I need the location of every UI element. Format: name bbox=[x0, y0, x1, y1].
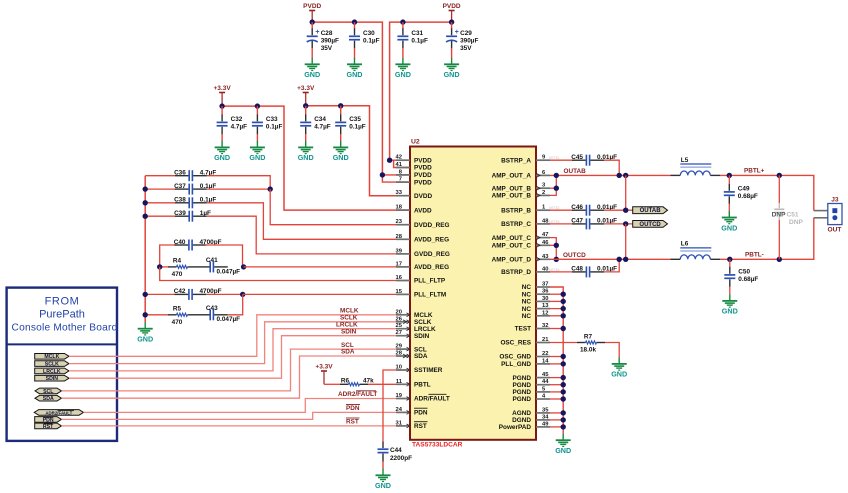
node outab flag junction bbox=[623, 208, 628, 213]
node C50 junction bbox=[727, 257, 732, 262]
wire PBTL- run bbox=[720, 218, 814, 259]
svg-text:32: 32 bbox=[542, 323, 548, 329]
capacitor C32 bbox=[217, 106, 248, 134]
capacitor C51 (DNP) bbox=[772, 175, 804, 259]
svg-text:BSTRP_D: BSTRP_D bbox=[501, 269, 531, 276]
svg-text:28: 28 bbox=[396, 351, 403, 357]
svg-text:39: 39 bbox=[396, 248, 403, 254]
wire C33-gnd bbox=[256, 134, 258, 141]
svg-text:C44: C44 bbox=[390, 447, 402, 454]
svg-text:C47: C47 bbox=[571, 218, 583, 225]
node C42 right junction bbox=[240, 292, 245, 297]
svg-text:PowerPAD: PowerPAD bbox=[499, 424, 532, 431]
net flag OUTCD bbox=[633, 221, 668, 228]
net flag SCLK bbox=[35, 361, 69, 368]
svg-text:C34: C34 bbox=[314, 116, 326, 123]
svg-text:10: 10 bbox=[396, 365, 402, 371]
ground C30 bbox=[347, 58, 363, 79]
svg-text:PBTL+: PBTL+ bbox=[744, 168, 765, 175]
svg-text:0.1µF: 0.1µF bbox=[363, 37, 380, 44]
pin 41 PVDD bbox=[396, 162, 433, 172]
capacitor C40 bbox=[160, 239, 243, 267]
ground C28 bbox=[304, 58, 320, 79]
svg-text:GND: GND bbox=[395, 70, 411, 79]
svg-text:+: + bbox=[455, 29, 459, 36]
svg-text:SDA: SDA bbox=[414, 353, 428, 360]
svg-text:30: 30 bbox=[542, 296, 548, 302]
wire +3.3V rail 2 to DVDD bbox=[306, 106, 410, 196]
net flag PDN bbox=[35, 417, 62, 424]
wire C31-gnd bbox=[402, 48, 404, 58]
svg-text:DNP: DNP bbox=[789, 219, 804, 226]
svg-text:DVDD_REG: DVDD_REG bbox=[414, 222, 450, 229]
net label LRCLK bbox=[336, 321, 358, 328]
svg-text:TEST: TEST bbox=[515, 326, 531, 333]
wire LRCLK bbox=[69, 329, 410, 371]
node pin46 junction bbox=[554, 243, 559, 248]
svg-text:OUTCD: OUTCD bbox=[563, 252, 586, 259]
pin 18 AVDD bbox=[396, 205, 432, 215]
pin 24 PDN bbox=[396, 407, 428, 417]
svg-text:C39: C39 bbox=[174, 210, 186, 217]
svg-text:17: 17 bbox=[396, 261, 402, 267]
wire C28-gnd bbox=[311, 48, 313, 58]
node 3.3V-C34 junction bbox=[303, 103, 308, 108]
part number TAS5733LDCAR bbox=[412, 442, 463, 449]
svg-text:0.68µF: 0.68µF bbox=[738, 193, 758, 200]
svg-text:OUT: OUT bbox=[828, 227, 842, 234]
pin 5 PGND bbox=[513, 386, 550, 396]
pin 36 NC bbox=[522, 289, 550, 299]
svg-text:PBTL: PBTL bbox=[414, 382, 431, 389]
svg-text:DGND: DGND bbox=[512, 417, 531, 424]
svg-text:C29: C29 bbox=[460, 30, 472, 37]
svg-text:390µF: 390µF bbox=[321, 37, 339, 44]
node 3.3V-C33 junction bbox=[255, 103, 260, 108]
svg-text:BSTRP_B: BSTRP_B bbox=[501, 207, 531, 214]
svg-text:NC: NC bbox=[522, 306, 532, 313]
svg-text:470: 470 bbox=[172, 319, 183, 326]
svg-text:OUTAB: OUTAB bbox=[564, 168, 587, 175]
wire RST bbox=[62, 425, 411, 427]
svg-text:PLL_GND: PLL_GND bbox=[501, 361, 531, 368]
capacitor C37 bbox=[145, 183, 270, 195]
pin 46 AMP_OUT_C bbox=[492, 240, 550, 250]
svg-text:12: 12 bbox=[542, 310, 548, 316]
svg-text:35: 35 bbox=[542, 407, 549, 413]
power PVDD (left) bbox=[303, 3, 321, 22]
svg-text:C49: C49 bbox=[738, 185, 750, 192]
node PVDD-C30 junction bbox=[352, 19, 357, 24]
pin 14 PLL_GND bbox=[501, 358, 550, 368]
svg-text:GND: GND bbox=[611, 370, 627, 379]
svg-text:+: + bbox=[315, 29, 319, 36]
net label SCLK bbox=[340, 315, 358, 322]
node pin6 junction bbox=[554, 173, 559, 178]
pin 28 AVDD_REG bbox=[396, 234, 450, 244]
wire PLL_FLTM pin15 bbox=[243, 293, 410, 295]
ground C29 bbox=[444, 58, 460, 79]
svg-text:24: 24 bbox=[396, 407, 403, 413]
wire PBTL+ run bbox=[720, 175, 814, 210]
svg-text:R7: R7 bbox=[584, 333, 593, 340]
pin 15 PLL_FLTM bbox=[396, 289, 447, 299]
svg-text:390µF: 390µF bbox=[460, 37, 478, 44]
svg-text:PVDD: PVDD bbox=[443, 3, 461, 10]
node C51 bottom junction bbox=[777, 257, 782, 262]
net label ADR2/FAULT bbox=[338, 391, 377, 398]
ground C35 bbox=[333, 141, 349, 162]
pin 43 AMP_OUT_D bbox=[492, 254, 550, 264]
capacitor C47 bbox=[550, 218, 633, 230]
svg-text:0.68µF: 0.68µF bbox=[738, 276, 758, 283]
svg-text:4.7µF: 4.7µF bbox=[314, 123, 331, 130]
ground right bus bbox=[555, 434, 571, 455]
node C48 outcd junction bbox=[617, 257, 622, 262]
svg-text:C42: C42 bbox=[174, 288, 186, 295]
svg-text:C46: C46 bbox=[571, 204, 583, 211]
pin 35 AGND bbox=[512, 407, 550, 417]
ground C33 bbox=[249, 141, 265, 162]
pin 1 BSTRP_B bbox=[501, 205, 560, 215]
wire amp_out_b group bbox=[550, 175, 556, 195]
svg-text:NC: NC bbox=[522, 291, 532, 298]
ground R7 bbox=[611, 357, 627, 378]
svg-text:PDN: PDN bbox=[414, 410, 428, 417]
svg-text:SCL: SCL bbox=[43, 389, 54, 395]
net label MCLK bbox=[340, 308, 359, 315]
pin 30 NC bbox=[522, 296, 550, 306]
node outcd flag junction bbox=[623, 221, 628, 226]
ground C31 bbox=[395, 58, 411, 79]
svg-text:44: 44 bbox=[542, 379, 549, 385]
svg-text:PVDD: PVDD bbox=[414, 172, 432, 179]
svg-text:C48: C48 bbox=[571, 266, 583, 273]
pin 13 NC bbox=[522, 303, 550, 313]
pin 44 PGND bbox=[513, 379, 550, 389]
svg-text:GND: GND bbox=[298, 153, 314, 162]
svg-text:SCLK: SCLK bbox=[45, 362, 59, 368]
wire SCLK bbox=[69, 322, 410, 364]
svg-text:PVDD: PVDD bbox=[414, 179, 432, 186]
svg-text:14: 14 bbox=[542, 358, 549, 364]
resistor R7 bbox=[550, 333, 619, 357]
svg-text:C28: C28 bbox=[321, 30, 333, 37]
node bus junctions bbox=[561, 292, 566, 430]
pin 26 SCLK bbox=[396, 316, 432, 326]
svg-text:BSTRP_C: BSTRP_C bbox=[501, 221, 531, 228]
svg-text:RST: RST bbox=[43, 424, 54, 430]
svg-text:29: 29 bbox=[396, 344, 403, 350]
svg-text:J3: J3 bbox=[831, 197, 839, 204]
node PVDD-C29 junction bbox=[449, 19, 454, 24]
svg-text:LRCLK: LRCLK bbox=[414, 326, 436, 333]
svg-text:C33: C33 bbox=[266, 116, 278, 123]
svg-text:4.7µF: 4.7µF bbox=[231, 123, 248, 130]
svg-text:GND: GND bbox=[721, 223, 737, 232]
svg-text:+3.3V: +3.3V bbox=[214, 85, 232, 92]
capacitor C49 bbox=[724, 175, 758, 204]
net flag SDA bbox=[35, 395, 62, 402]
svg-text:23: 23 bbox=[396, 219, 403, 225]
node PVDD-C31 junction bbox=[400, 19, 405, 24]
svg-text:45: 45 bbox=[542, 372, 549, 378]
svg-text:11: 11 bbox=[396, 379, 403, 385]
svg-text:SDA: SDA bbox=[43, 396, 54, 402]
pin 4 PGND bbox=[513, 394, 550, 404]
wire left bus bbox=[144, 176, 146, 323]
capacitor C45 bbox=[550, 154, 619, 175]
svg-text:MCLK: MCLK bbox=[340, 308, 359, 315]
svg-text:GND: GND bbox=[375, 481, 391, 490]
svg-text:15: 15 bbox=[396, 289, 403, 295]
svg-text:OSC_GND: OSC_GND bbox=[499, 354, 531, 361]
pin 22 OSC_GND bbox=[499, 351, 550, 361]
net label SDIN bbox=[341, 328, 357, 335]
svg-text:LRCLK: LRCLK bbox=[336, 321, 358, 328]
capacitor C35 bbox=[335, 106, 366, 135]
svg-text:C35: C35 bbox=[349, 116, 361, 123]
net label OUTAB bbox=[564, 168, 587, 175]
pin 40 BSTRP_D bbox=[501, 266, 560, 276]
svg-text:OUTCD: OUTCD bbox=[639, 222, 661, 228]
pin 25 LRCLK bbox=[396, 323, 436, 333]
svg-text:GND: GND bbox=[304, 70, 320, 79]
svg-text:35V: 35V bbox=[321, 45, 333, 52]
pin 11 PBTL bbox=[396, 379, 431, 389]
svg-text:OSC_RES: OSC_RES bbox=[500, 340, 531, 347]
svg-text:PurePath: PurePath bbox=[39, 309, 85, 321]
svg-text:ADR/FAULT: ADR/FAULT bbox=[414, 396, 450, 403]
svg-text:DNP: DNP bbox=[772, 212, 787, 219]
ground C32 bbox=[214, 141, 230, 162]
net flag SCL bbox=[35, 388, 62, 395]
wire C34-gnd bbox=[305, 134, 307, 141]
svg-text:25: 25 bbox=[396, 323, 403, 329]
svg-text:PLL_FLTP: PLL_FLTP bbox=[414, 278, 446, 285]
svg-text:0.1µF: 0.1µF bbox=[266, 123, 283, 130]
pin 34 DGND bbox=[512, 414, 550, 424]
node PVDD pin42 junction bbox=[387, 158, 392, 163]
svg-text:36: 36 bbox=[542, 289, 549, 295]
svg-text:Console Mother Board: Console Mother Board bbox=[12, 323, 118, 334]
svg-text:49: 49 bbox=[542, 421, 549, 427]
svg-text:0.1µF: 0.1µF bbox=[349, 123, 366, 130]
svg-text:SDIN: SDIN bbox=[414, 333, 430, 340]
svg-text:PBTL-: PBTL- bbox=[745, 252, 764, 259]
net label PDN bbox=[346, 405, 360, 413]
wire ADR2/FAULT bbox=[84, 399, 411, 413]
pin 29 SCL bbox=[396, 344, 427, 354]
node PVDD pin8 junction bbox=[380, 172, 385, 177]
svg-text:42: 42 bbox=[396, 155, 402, 161]
capacitor C34 bbox=[300, 106, 331, 135]
wire pin7 PVDD jog bbox=[382, 175, 410, 182]
svg-text:AMP_OUT_C: AMP_OUT_C bbox=[492, 235, 532, 242]
ground C49 bbox=[721, 211, 737, 232]
resistor R4 bbox=[160, 258, 196, 278]
svg-text:DVDD: DVDD bbox=[414, 193, 432, 200]
svg-text:47k: 47k bbox=[363, 378, 374, 385]
wire SSTIMER to C44 bbox=[383, 370, 410, 442]
wire C35-gnd bbox=[340, 134, 342, 141]
power +3.3V (C34 rail) bbox=[297, 85, 315, 106]
node pin3 junction bbox=[554, 186, 559, 191]
svg-text:26: 26 bbox=[396, 316, 403, 322]
svg-text:AGND: AGND bbox=[512, 410, 531, 417]
svg-text:C31: C31 bbox=[411, 30, 423, 37]
svg-text:PLL_FLTM: PLL_FLTM bbox=[414, 292, 446, 299]
wire PDN bbox=[62, 412, 411, 419]
pin 47 AMP_OUT_C bbox=[492, 232, 550, 242]
svg-text:41: 41 bbox=[396, 162, 403, 168]
svg-text:43: 43 bbox=[542, 254, 549, 260]
wire C29-gnd bbox=[451, 48, 453, 58]
pin 32 TEST bbox=[515, 323, 550, 333]
svg-text:FROM: FROM bbox=[45, 296, 80, 308]
wire SCL bbox=[62, 349, 411, 391]
svg-text:470: 470 bbox=[172, 271, 183, 278]
pin 42 PVDD bbox=[396, 155, 433, 165]
pin 31 RST bbox=[396, 420, 428, 430]
svg-text:L5: L5 bbox=[681, 157, 689, 164]
svg-text:33: 33 bbox=[396, 190, 403, 196]
wire SDA bbox=[62, 356, 411, 398]
svg-text:TAS5733LDCAR: TAS5733LDCAR bbox=[412, 442, 463, 449]
block FROM PurePath Console Mother Board bbox=[7, 288, 118, 441]
svg-text:2200pF: 2200pF bbox=[390, 455, 412, 462]
pin 16 PLL_FLTP bbox=[396, 275, 446, 285]
wire pin42 PVDD link bbox=[390, 159, 410, 161]
wire C50-gnd bbox=[729, 287, 731, 295]
capacitor C39 bbox=[145, 210, 410, 254]
svg-text:C37: C37 bbox=[174, 183, 186, 190]
svg-text:GND: GND bbox=[249, 153, 265, 162]
capacitor C33 bbox=[252, 106, 283, 134]
op-amp U2 TAS5733LDCAR body bbox=[410, 139, 536, 440]
pin 19 ADR/FAULT bbox=[396, 393, 450, 403]
pin 37 NC bbox=[522, 282, 550, 292]
capacitor C44 bbox=[378, 442, 413, 462]
node C45 outab junction bbox=[617, 173, 622, 178]
power +3.3V (R6) bbox=[315, 364, 333, 385]
svg-text:AMP_OUT_B: AMP_OUT_B bbox=[492, 185, 532, 192]
pin 27 SDIN bbox=[396, 330, 430, 340]
svg-text:13: 13 bbox=[542, 303, 549, 309]
node C49 junction bbox=[727, 173, 732, 178]
svg-text:19: 19 bbox=[396, 393, 403, 399]
net label SCL bbox=[341, 342, 354, 349]
svg-text:C40: C40 bbox=[174, 239, 186, 246]
node C37 bus junction bbox=[143, 186, 148, 191]
pin 10 SSTIMER bbox=[396, 365, 443, 375]
svg-text:RST: RST bbox=[346, 419, 359, 426]
wire AVDD_REG pin17 bbox=[244, 266, 410, 268]
svg-text:20: 20 bbox=[396, 309, 402, 315]
net label OUTCD bbox=[563, 252, 586, 259]
svg-text:AVDD_REG: AVDD_REG bbox=[414, 264, 449, 271]
svg-text:37: 37 bbox=[542, 282, 548, 288]
pin 9 BSTRP_A bbox=[501, 155, 560, 165]
wire right gnd bus bbox=[550, 287, 563, 434]
svg-text:PDN: PDN bbox=[346, 405, 360, 412]
ground C50 bbox=[722, 294, 738, 315]
svg-text:+3.3V: +3.3V bbox=[315, 364, 333, 371]
svg-text:R4: R4 bbox=[173, 258, 182, 265]
svg-text:PVDD: PVDD bbox=[414, 157, 432, 164]
svg-text:47: 47 bbox=[542, 232, 548, 238]
node C42 bus junction bbox=[143, 292, 148, 297]
svg-text:C41: C41 bbox=[206, 257, 218, 264]
capacitor C50 bbox=[724, 259, 758, 287]
capacitor C31 bbox=[397, 22, 428, 48]
svg-text:RST: RST bbox=[414, 423, 427, 430]
wire pin41 PVDD jog bbox=[394, 160, 410, 167]
svg-text:PVDD: PVDD bbox=[414, 165, 432, 172]
net flag LRCLK bbox=[35, 368, 69, 375]
svg-text:NC: NC bbox=[522, 284, 532, 291]
wire outcd flag branch bbox=[625, 224, 627, 259]
wire PVDD right rail bbox=[390, 22, 452, 160]
svg-text:C32: C32 bbox=[231, 116, 243, 123]
node R5 bus junction bbox=[143, 312, 148, 317]
svg-text:AMP_OUT_B: AMP_OUT_B bbox=[492, 193, 532, 200]
net flag RST bbox=[35, 423, 62, 430]
svg-text:22: 22 bbox=[542, 351, 548, 357]
capacitor C46 bbox=[550, 204, 633, 216]
net flag ADR2/FAULT bbox=[34, 410, 83, 416]
net label PBTL- bbox=[745, 252, 764, 259]
connector J3 OUT bbox=[814, 197, 842, 234]
svg-text:18: 18 bbox=[396, 205, 403, 211]
inductor L5 bbox=[670, 157, 720, 176]
svg-text:AMP_OUT_A: AMP_OUT_A bbox=[492, 173, 532, 180]
svg-text:16: 16 bbox=[396, 275, 403, 281]
wire +3.3V rail 1 to AVDD bbox=[222, 106, 410, 210]
svg-text:AMP_OUT_D: AMP_OUT_D bbox=[492, 257, 532, 264]
svg-text:PGND: PGND bbox=[513, 389, 532, 396]
ground C44 bbox=[375, 469, 391, 490]
svg-text:46: 46 bbox=[542, 240, 549, 246]
svg-text:L6: L6 bbox=[681, 241, 689, 248]
resistor R6 bbox=[324, 378, 410, 386]
capacitor C38 bbox=[145, 197, 410, 240]
pin 28 SDA bbox=[396, 351, 428, 361]
wire C44-gnd bbox=[382, 462, 384, 470]
svg-text:BSTRP_A: BSTRP_A bbox=[501, 157, 531, 164]
svg-text:PGND: PGND bbox=[513, 375, 532, 382]
net flag OUTAB bbox=[633, 207, 668, 214]
pin 3 AMP_OUT_B bbox=[492, 183, 550, 193]
node C51 top junction bbox=[777, 173, 782, 178]
svg-text:40: 40 bbox=[542, 266, 548, 272]
svg-text:35V: 35V bbox=[460, 45, 472, 52]
capacitor C48 bbox=[550, 259, 619, 277]
svg-text:0.1µF: 0.1µF bbox=[411, 37, 428, 44]
svg-text:SDIN: SDIN bbox=[341, 328, 357, 335]
svg-text:OUTAB: OUTAB bbox=[640, 208, 662, 214]
svg-text:SDA: SDA bbox=[341, 349, 355, 356]
wire OUTAB trunk bbox=[550, 174, 670, 176]
svg-text:28: 28 bbox=[396, 234, 403, 240]
svg-text:GND: GND bbox=[444, 70, 460, 79]
node PLL1 right junction bbox=[241, 264, 246, 269]
wire C43 riser bbox=[228, 294, 243, 314]
svg-text:31: 31 bbox=[396, 420, 403, 426]
svg-text:7: 7 bbox=[399, 177, 402, 183]
pin 8 PVDD bbox=[396, 169, 432, 179]
wire PLL_FLTP pin16 bbox=[160, 267, 410, 281]
